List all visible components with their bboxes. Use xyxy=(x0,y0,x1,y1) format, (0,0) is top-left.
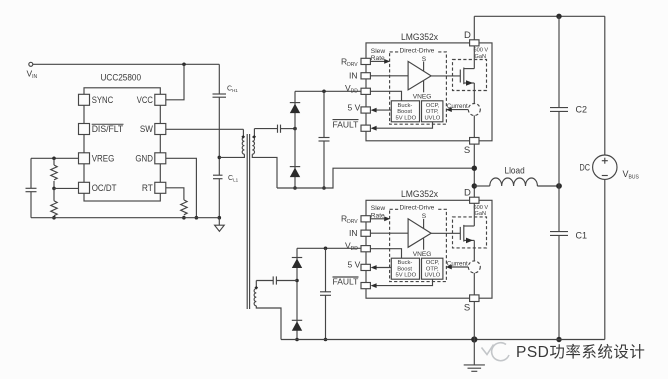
svg-text:GND: GND xyxy=(135,154,153,164)
svg-text:UCC25800: UCC25800 xyxy=(101,72,142,83)
svg-text:RT: RT xyxy=(142,183,153,193)
svg-text:SYNC: SYNC xyxy=(92,95,114,105)
svg-text:VREG: VREG xyxy=(92,154,115,164)
svg-text:C2: C2 xyxy=(576,105,588,115)
svg-text:VCC: VCC xyxy=(137,95,153,105)
svg-text:DIS/FLT: DIS/FLT xyxy=(92,124,124,134)
svg-text:SW: SW xyxy=(140,124,153,134)
svg-text:C1: C1 xyxy=(576,231,588,241)
svg-text:Lload: Lload xyxy=(505,166,525,177)
svg-text:OC/DT: OC/DT xyxy=(92,183,117,193)
svg-text:PSD功率系统设计: PSD功率系统设计 xyxy=(516,343,645,361)
svg-text:DC: DC xyxy=(580,163,591,174)
